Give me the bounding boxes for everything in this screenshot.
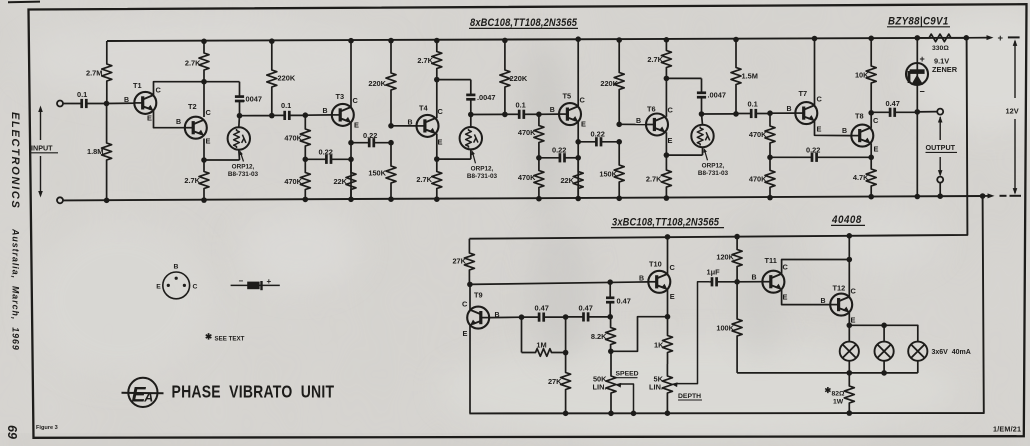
wire +12V top supply rail	[107, 38, 966, 41]
node T6 base junction	[616, 122, 622, 128]
wire T11 emitter to T12 base	[782, 289, 830, 304]
svg-text:E: E	[206, 137, 211, 146]
wire LFO ground return riser	[849, 196, 984, 413]
svg-text:T3: T3	[336, 92, 345, 101]
svg-text:1W: 1W	[833, 399, 844, 406]
node T11/T12 collector junction	[847, 257, 853, 263]
wire T5 collector to rail	[577, 39, 579, 106]
svg-text:B8-731-03: B8-731-03	[698, 170, 729, 177]
node input bias junction	[104, 101, 110, 107]
svg-text:T10: T10	[649, 259, 662, 268]
svg-text:2.7K: 2.7K	[416, 175, 432, 184]
svg-text:0.47: 0.47	[617, 296, 631, 305]
node 220K bottom junction	[269, 113, 275, 119]
svg-text:0.1: 0.1	[748, 99, 758, 108]
svg-text:DEPTH: DEPTH	[678, 393, 701, 400]
svg-text:−: −	[920, 87, 925, 97]
svg-text:0.47: 0.47	[886, 99, 900, 108]
svg-text:B: B	[550, 107, 555, 114]
svg-text:B: B	[752, 275, 757, 282]
svg-text:✱: ✱	[205, 332, 213, 342]
svg-text:PHASE VIBRATO UNIT: PHASE VIBRATO UNIT	[172, 383, 335, 402]
svg-text:INPUT: INPUT	[31, 144, 53, 153]
svg-text:B: B	[408, 120, 413, 127]
wire T2 emitter node to ORP12 bottom	[204, 159, 240, 161]
svg-text:LIN.: LIN.	[649, 383, 663, 392]
svg-text:+: +	[267, 277, 272, 286]
svg-text:T2: T2	[188, 102, 197, 111]
node T5 base junction	[536, 112, 542, 118]
lamp 2	[875, 342, 894, 361]
svg-text:220K: 220K	[368, 79, 386, 88]
transistor pinout diagram	[163, 272, 190, 299]
node supply feed junction	[964, 35, 970, 41]
wire +12V rail arrow and + terminal	[966, 37, 989, 39]
svg-text:T5: T5	[563, 91, 572, 100]
lamp 3	[908, 342, 927, 361]
output terminal bottom	[937, 177, 943, 183]
svg-text:E: E	[783, 293, 788, 302]
svg-text:T4: T4	[419, 104, 429, 113]
label BZY88/C9V1	[888, 16, 949, 28]
svg-text:C: C	[851, 286, 857, 295]
svg-text:B: B	[636, 118, 641, 125]
svg-text:E: E	[670, 292, 675, 301]
wire T4 collector up	[436, 80, 438, 119]
node T3 base junction	[303, 112, 309, 118]
svg-text:8.2K: 8.2K	[591, 332, 607, 341]
svg-text:ELECTRONICS: ELECTRONICS	[9, 112, 21, 210]
wire T6 emitter to ORP12 bottom	[666, 154, 702, 156]
wire T4 emitter down	[436, 134, 438, 160]
wire to T3 base	[305, 114, 331, 116]
svg-text:B: B	[842, 128, 847, 135]
node RC network node B	[563, 314, 569, 320]
svg-text:BZY88|C9V1: BZY88|C9V1	[888, 16, 949, 28]
LDR ORP12 first	[228, 127, 250, 149]
wire output terminal bottom to rail	[939, 183, 941, 197]
label 3xBC108,TT108,2N3565	[612, 217, 719, 229]
svg-text:8xBC108,TT108,2N3565: 8xBC108,TT108,2N3565	[470, 18, 577, 30]
svg-text:.0047: .0047	[477, 93, 496, 102]
svg-text:1.5M: 1.5M	[742, 71, 758, 80]
wire to T4 base	[391, 125, 416, 127]
svg-text:+: +	[998, 33, 1004, 44]
wire T8 emitter down	[870, 143, 872, 157]
wire T4 collector bus	[437, 79, 471, 81]
svg-text:330Ω: 330Ω	[932, 45, 949, 52]
svg-text:E: E	[874, 145, 879, 154]
node T6 base cap tap	[616, 139, 622, 145]
wire T4 emitter to ORP12 bottom	[437, 158, 471, 160]
svg-text:C: C	[670, 263, 676, 272]
wire T6 emitter down	[665, 132, 667, 155]
wire T10 emitter down	[667, 290, 669, 317]
svg-text:B8-731-03: B8-731-03	[228, 171, 259, 178]
svg-text:C: C	[353, 96, 359, 105]
svg-text:150K: 150K	[368, 169, 386, 178]
output terminal top	[937, 109, 943, 115]
wire node1 to 0.1 cap	[240, 115, 272, 117]
svg-text:12V: 12V	[1006, 107, 1019, 116]
svg-text:C: C	[668, 106, 674, 115]
svg-text:B: B	[639, 276, 644, 283]
svg-text:B8-731-03: B8-731-03	[467, 173, 498, 180]
node T10 emitter junction	[665, 314, 671, 320]
wire T6 collector up	[665, 78, 667, 116]
wiper DEPTH pot	[671, 382, 677, 387]
svg-text:0.1: 0.1	[77, 90, 87, 99]
wire node3 right	[702, 113, 737, 115]
wire to T5 base	[539, 113, 559, 115]
diode polarity legend	[231, 284, 280, 286]
svg-text:ORP12,: ORP12,	[232, 164, 255, 171]
svg-text:0.47: 0.47	[579, 304, 593, 313]
svg-text:E: E	[581, 120, 586, 129]
wire lamp top bus	[849, 325, 918, 341]
wire supply feed down to LFO rail	[849, 38, 967, 236]
node T3 emitter cap tap	[348, 140, 354, 146]
svg-text:✱: ✱	[825, 386, 832, 395]
svg-text:.0047: .0047	[708, 90, 727, 99]
svg-text:1μF: 1μF	[707, 267, 721, 276]
svg-text:3x6V 40mA: 3x6V 40mA	[932, 349, 971, 356]
node T7 base junction	[767, 110, 773, 116]
node T5 emitter bias tap	[575, 155, 581, 161]
title PHASE VIBRATO UNIT	[172, 383, 335, 402]
svg-text:Australia, March, 1969: Australia, March, 1969	[11, 228, 21, 351]
node phase network node 2	[468, 112, 474, 118]
svg-text:1/EM/21: 1/EM/21	[993, 425, 1021, 434]
svg-text:SEE TEXT: SEE TEXT	[215, 336, 245, 343]
svg-text:3xBC108,TT108,2N3565: 3xBC108,TT108,2N3565	[612, 217, 719, 229]
node 1M right junction	[563, 350, 569, 356]
svg-text:B: B	[176, 119, 181, 126]
node T11 base junction	[734, 279, 740, 285]
svg-text:69: 69	[5, 425, 19, 439]
svg-text:C: C	[783, 262, 789, 271]
svg-text:−: −	[239, 277, 244, 286]
wire T11 collector to collector bus	[782, 260, 850, 274]
svg-text:0.1: 0.1	[516, 101, 526, 110]
wire T1 emitter to T2 base	[154, 111, 185, 128]
svg-text:T7: T7	[799, 89, 808, 98]
svg-text:E: E	[438, 138, 443, 147]
svg-text:C: C	[873, 116, 879, 125]
svg-text:ZENER: ZENER	[932, 65, 958, 74]
svg-text:C: C	[817, 95, 823, 104]
node 0.47 top junction	[607, 279, 613, 285]
svg-text:T6: T6	[647, 105, 656, 114]
svg-text:2.7K: 2.7K	[646, 175, 662, 184]
node T9 collector junction	[467, 282, 473, 288]
node T4 base junction	[388, 123, 394, 129]
svg-text:40408: 40408	[831, 215, 862, 227]
svg-text:220K: 220K	[510, 74, 528, 83]
wire LFO bottom rail	[469, 412, 849, 414]
svg-text:2.7K: 2.7K	[185, 58, 201, 67]
node T3 emitter bias tap	[348, 157, 354, 163]
svg-text:E: E	[851, 316, 856, 325]
OUTPUT annotation with arrows	[939, 117, 941, 140]
node stage2 bias midpoint	[303, 157, 309, 163]
wire to T6 base	[619, 123, 646, 125]
wire T6 collector bus	[666, 77, 701, 79]
wire to T11 base	[737, 281, 762, 283]
wire T1 collector to collector bus	[154, 82, 205, 96]
wire T2 emitter down to emitter node	[203, 139, 205, 161]
svg-text:E: E	[463, 329, 468, 338]
wire T9 collector lead	[469, 284, 471, 310]
svg-text:C: C	[206, 108, 212, 117]
wire 8.2K bottom to T10 emitter	[611, 317, 668, 352]
wire T9 emitter lead to ground rail	[469, 325, 471, 413]
svg-text:E: E	[668, 136, 673, 145]
node output tap	[868, 110, 874, 116]
left margin text Australia, March, 1969 (rotated)	[11, 228, 21, 351]
wire T2 collector bus to .0047	[204, 81, 240, 83]
node lamp return junctions	[847, 370, 853, 376]
label 40408	[831, 215, 862, 227]
node T8 emitter junction	[868, 155, 874, 161]
svg-text:C: C	[156, 86, 162, 95]
svg-text:LIN.: LIN.	[593, 383, 607, 392]
wire 0V bottom rail	[63, 196, 983, 200]
node output bias midpoint	[767, 155, 773, 161]
wire input node to T1 base	[107, 102, 135, 104]
svg-text:T12: T12	[833, 283, 846, 292]
magazine name ELECTRONICS (left margin, rotated)	[9, 112, 21, 210]
node lamp feed junction	[847, 323, 853, 329]
page number 69 (rotated)	[5, 425, 19, 439]
node T6 emitter junction	[664, 152, 670, 158]
wire T3 emitter down	[350, 123, 352, 200]
svg-text:470K: 470K	[518, 128, 536, 137]
svg-text:C: C	[438, 107, 444, 116]
wire T12 emitter down	[848, 312, 850, 325]
wire T3 collector to rail	[350, 41, 352, 108]
svg-text:T9: T9	[474, 291, 483, 300]
svg-text:2.7M: 2.7M	[86, 69, 102, 78]
wire T8 collector up	[870, 113, 872, 128]
svg-text:T1: T1	[133, 81, 142, 90]
svg-text:A: A	[143, 391, 153, 405]
wire T9 base right	[489, 316, 521, 318]
svg-text:C: C	[462, 300, 468, 309]
wire T12 collector up to LFO rail	[848, 236, 850, 297]
wire 100K bottom to lamp return	[737, 372, 918, 374]
node T1/T2 collector junction	[201, 79, 207, 85]
node T4 emitter junction	[434, 156, 440, 162]
wire to output terminal	[917, 111, 937, 113]
node stage3 bias midpoint	[536, 155, 542, 161]
node RC network node C	[607, 314, 613, 320]
node RC network node A	[519, 314, 525, 320]
svg-text:T8: T8	[855, 111, 864, 120]
wire T2 collector up	[203, 82, 205, 117]
svg-text:Figure 3: Figure 3	[36, 425, 58, 431]
svg-text:B: B	[124, 97, 129, 104]
svg-text:ORP12,: ORP12,	[702, 162, 725, 169]
svg-text:220K: 220K	[278, 73, 296, 82]
wire T9 collector bus to T10 base	[470, 282, 648, 285]
LDR ORP12 third	[691, 125, 713, 147]
node T6 collector junction	[664, 76, 670, 82]
wire T7 collector to rail	[814, 39, 816, 106]
svg-text:1M: 1M	[536, 340, 546, 349]
svg-text:E: E	[817, 125, 822, 134]
svg-text:82Ω: 82Ω	[832, 391, 846, 398]
svg-text:B: B	[323, 108, 328, 115]
svg-text:0.47: 0.47	[535, 304, 549, 313]
lamp 1	[840, 342, 859, 361]
svg-text:T11: T11	[765, 256, 777, 265]
wire LFO top rail	[469, 236, 849, 239]
svg-text:E: E	[156, 284, 161, 291]
node T5 emitter cap tap	[575, 139, 581, 145]
node T4 base cap tap	[388, 140, 394, 146]
wire node2 right	[471, 113, 505, 115]
svg-text:C: C	[580, 95, 586, 104]
EA logo	[128, 378, 157, 407]
12V annotation with arrows	[1014, 41, 1016, 98]
node phase network node 1	[237, 113, 243, 119]
node phase network node 3	[699, 111, 705, 117]
svg-text:470K: 470K	[518, 173, 536, 182]
page edge mark top left	[8, 1, 40, 4]
wire T5 emitter down	[577, 122, 579, 199]
node T4 collector junction	[434, 77, 440, 83]
svg-text:E: E	[354, 121, 359, 130]
node 8.2K bottom junction	[608, 349, 614, 355]
svg-text:OUTPUT: OUTPUT	[926, 143, 956, 152]
node zener output junction	[915, 109, 921, 115]
INPUT annotation with arrows	[40, 109, 42, 140]
svg-text:ORP12,: ORP12,	[471, 165, 494, 172]
wire T7 emitter to T8 base	[815, 121, 852, 136]
input terminal bottom	[57, 197, 63, 203]
node T2 emitter junction	[201, 157, 207, 163]
input terminal top	[57, 101, 63, 107]
wire T10 collector to LFO rail	[667, 237, 669, 274]
svg-text:B: B	[821, 298, 826, 305]
wire 0V rail arrow and - terminal	[980, 193, 986, 199]
svg-text:B: B	[787, 106, 792, 113]
svg-text:E: E	[147, 114, 152, 123]
svg-text:SPEED: SPEED	[616, 371, 639, 378]
label 8xBC108,TT108,2N3565	[470, 18, 577, 30]
svg-text:0.1: 0.1	[281, 101, 291, 110]
wiper SPEED pot	[615, 383, 621, 388]
LDR ORP12 second	[460, 127, 482, 149]
svg-text:B: B	[174, 263, 179, 270]
wire to T7 base	[770, 112, 795, 114]
svg-text:C: C	[193, 284, 198, 291]
svg-text:.0047: .0047	[244, 95, 263, 104]
